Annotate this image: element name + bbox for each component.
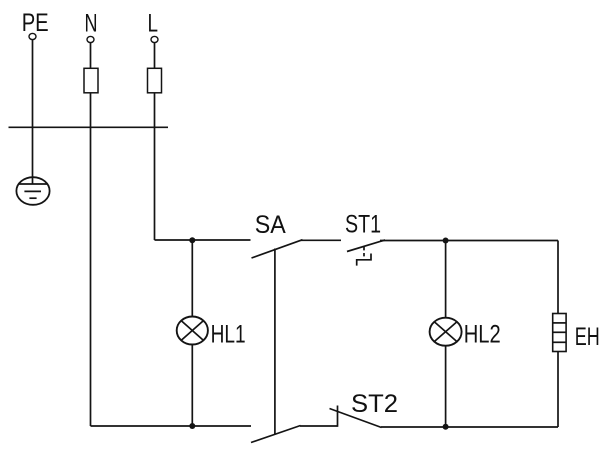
wire bottom right <box>381 426 558 428</box>
svg-text:ST1: ST1 <box>345 211 381 239</box>
svg-text:N: N <box>85 9 98 37</box>
wire right rail lower <box>557 352 559 428</box>
node junction HL2 top <box>443 238 449 244</box>
wire HL2 branch upper <box>445 241 447 318</box>
svg-text:PE: PE <box>22 9 49 37</box>
heater EH <box>553 314 566 352</box>
svg-text:HL1: HL1 <box>211 321 246 349</box>
pushbutton ST1 blade <box>347 240 385 252</box>
wire ST1 to right rail <box>380 240 558 242</box>
wire L to SA <box>155 239 251 241</box>
svg-text:L: L <box>148 9 159 37</box>
switch SA link bar <box>274 249 276 435</box>
wire bottom left <box>91 425 252 427</box>
lamp HL2 <box>430 318 462 346</box>
lamp HL1 <box>177 317 208 345</box>
svg-text:EH: EH <box>575 323 600 351</box>
wire right rail upper <box>557 241 559 314</box>
switch SA pole 1 blade <box>252 240 303 258</box>
wire SA pole 2 to ST2 <box>300 425 338 427</box>
wire HL1 branch lower <box>191 345 193 427</box>
busbar <box>9 126 169 128</box>
terminal N <box>87 36 94 42</box>
thermostat ST2 blade <box>330 409 382 428</box>
node junction top-left <box>189 237 195 243</box>
terminal L <box>151 36 158 42</box>
wire PE vertical <box>32 40 34 184</box>
switch SA pole 2 blade <box>251 426 301 443</box>
svg-text:ST2: ST2 <box>351 390 398 418</box>
node junction HL2 bottom <box>443 424 449 430</box>
pushbutton ST1 actuator stem <box>363 247 365 260</box>
wire L vertical <box>154 43 156 240</box>
wire HL1 branch upper <box>191 240 193 316</box>
svg-text:HL2: HL2 <box>464 321 501 349</box>
earth electrode symbol <box>16 177 49 205</box>
fuse FU2 <box>148 68 162 93</box>
wire HL2 branch lower <box>445 346 447 427</box>
pushbutton ST1 actuator bracket <box>357 254 371 266</box>
wire SA to ST1 <box>301 239 342 241</box>
terminal PE <box>29 33 36 39</box>
node junction bottom-left <box>189 423 195 429</box>
svg-text:SA: SA <box>255 211 286 239</box>
fuse FU1 <box>84 68 98 93</box>
wire N vertical <box>90 43 92 426</box>
thermostat ST2 fixed contact tick <box>337 406 339 427</box>
